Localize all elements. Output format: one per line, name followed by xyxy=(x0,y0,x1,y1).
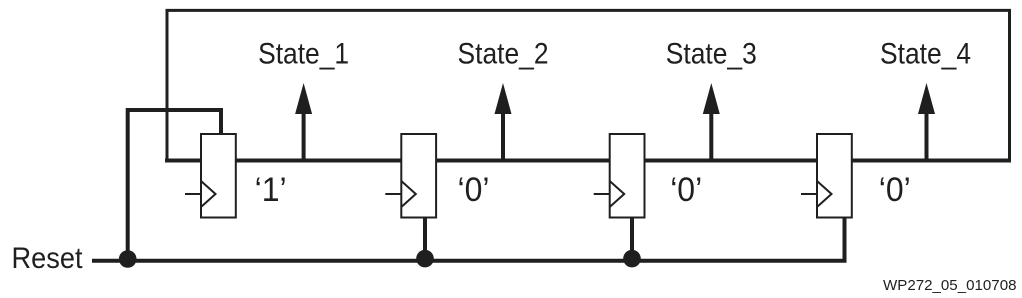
flip-flop FF1 body xyxy=(201,134,236,218)
flip-flop FF1 clock stub xyxy=(185,193,201,195)
wire: D input of FF1 from feedback leg xyxy=(165,159,202,163)
flip-flop FF2 body xyxy=(401,134,436,218)
wire: Q1 output FF1 to FF2 xyxy=(235,159,403,163)
svg-text:State_1: State_1 xyxy=(258,38,349,71)
wire: feedback loop from Q4 around the top back to D1 xyxy=(167,10,1010,162)
flip-flop FF4 clock chevron xyxy=(817,181,832,207)
flip-flop FF3 clock stub xyxy=(594,193,610,195)
flip-flop FF1 clock chevron xyxy=(201,181,216,207)
wire: Reset rail along the bottom with riser to FF4 reset pin xyxy=(92,218,845,261)
flip-flop FF4 clock stub xyxy=(801,193,817,195)
junction dot: Reset rail at FF1 branch xyxy=(119,250,137,268)
wire: Q2 output FF2 to FF3 xyxy=(435,159,611,163)
flip-flop FF4 body xyxy=(817,134,852,218)
flip-flop FF2 clock stub xyxy=(385,193,401,195)
svg-text:Reset: Reset xyxy=(12,242,84,275)
state output arrow State_1 xyxy=(295,83,312,162)
svg-text:‘1’: ‘1’ xyxy=(255,171,287,209)
svg-text:‘0’: ‘0’ xyxy=(670,171,702,209)
state output arrow State_4 xyxy=(918,83,935,162)
svg-text:State_3: State_3 xyxy=(666,38,757,71)
flip-flop FF2 clock chevron xyxy=(401,181,416,207)
svg-text:‘0’: ‘0’ xyxy=(879,171,911,209)
state output arrow State_3 xyxy=(703,83,720,162)
svg-text:State_4: State_4 xyxy=(880,38,971,71)
junction dot: Reset rail at FF3 xyxy=(623,250,641,268)
wire: Q4 output FF4 to feedback loop xyxy=(851,159,1011,163)
state output arrow State_2 xyxy=(495,83,512,162)
wire: Q3 output FF3 to FF4 xyxy=(644,159,820,163)
svg-text:‘0’: ‘0’ xyxy=(458,171,490,209)
wire: reset pin riser FF2 xyxy=(423,218,427,258)
svg-text:WP272_05_010708: WP272_05_010708 xyxy=(883,277,1017,294)
junction dot: Reset rail at FF2 xyxy=(416,250,434,268)
wire: reset pin riser FF3 xyxy=(630,218,634,258)
wire: Reset branch to set input on top of FF1 xyxy=(128,110,221,252)
flip-flop FF3 body xyxy=(610,134,645,218)
svg-text:State_2: State_2 xyxy=(458,38,549,71)
flip-flop FF3 clock chevron xyxy=(610,181,625,207)
